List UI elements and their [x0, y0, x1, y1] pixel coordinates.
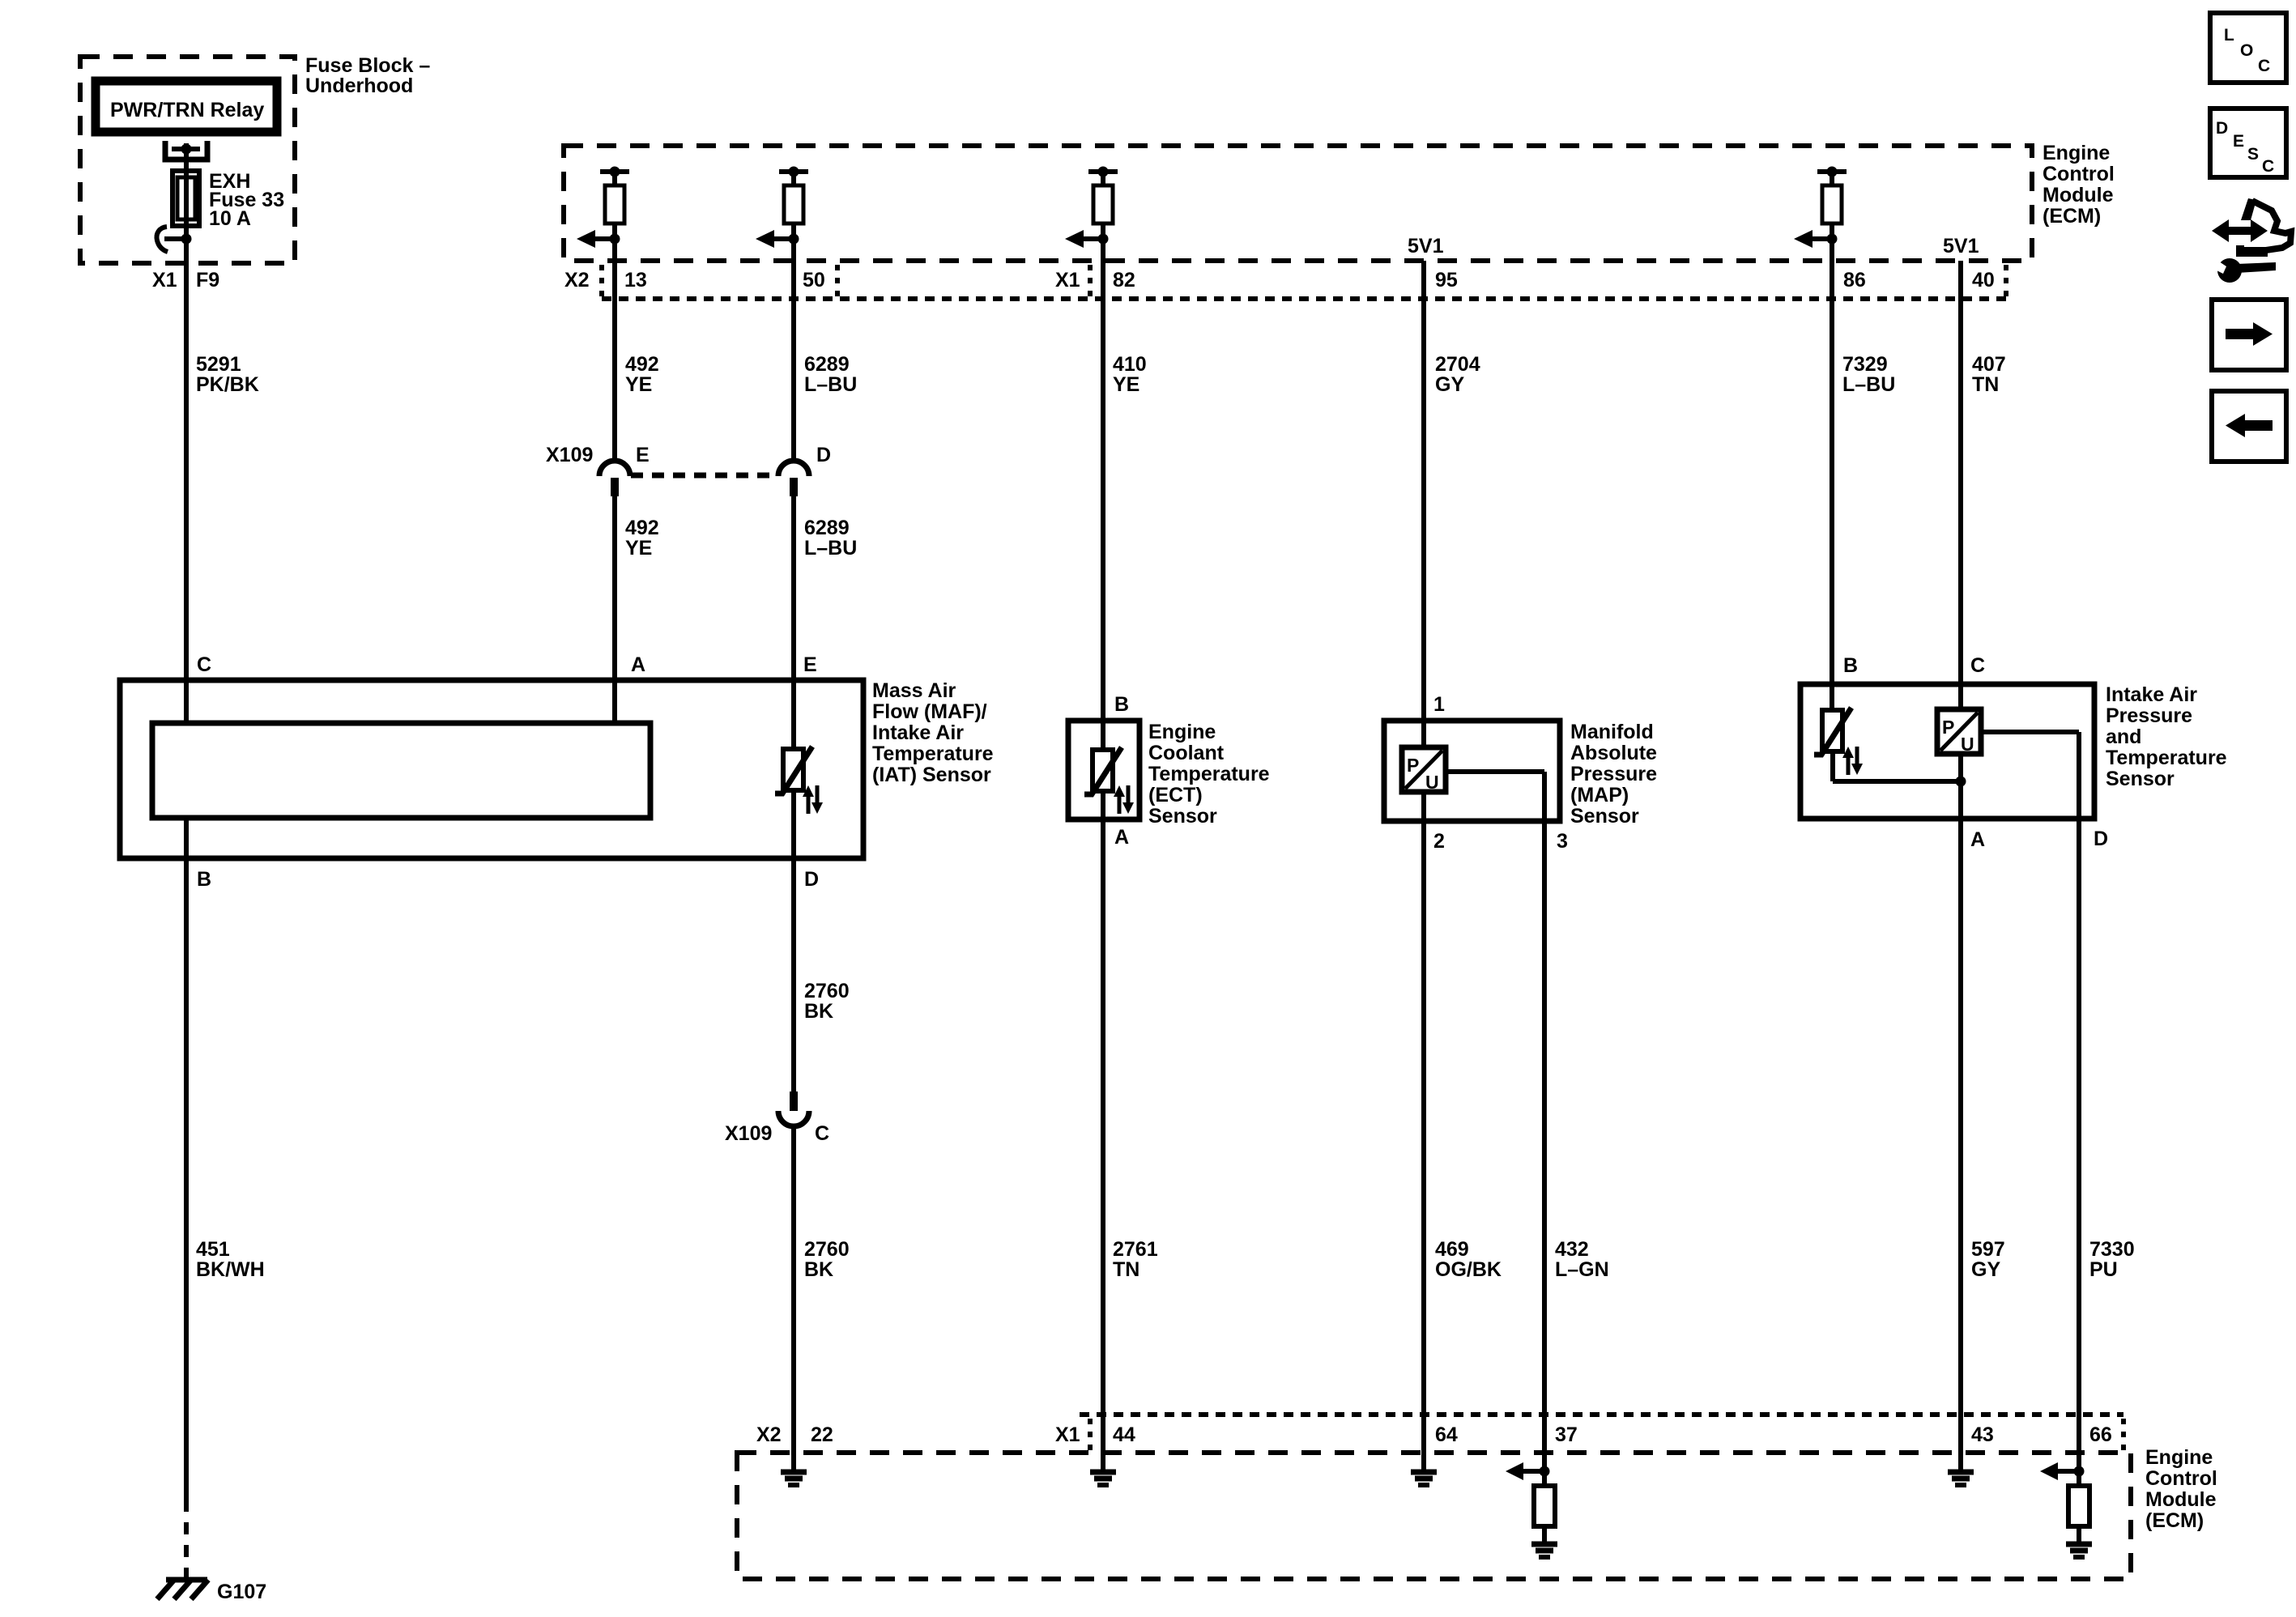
svg-text:50: 50	[803, 269, 825, 291]
ECM internal resistor	[1822, 185, 1842, 223]
temp variation arrows ECT	[1114, 785, 1134, 814]
MAF pin B	[197, 868, 211, 891]
IAT/P pin C	[1970, 654, 1985, 677]
P/U pressure transducer MAP	[1402, 747, 1446, 793]
svg-text:37: 37	[1555, 1423, 1578, 1446]
svg-text:D: D	[2216, 119, 2228, 138]
label 492 YE upper segment	[625, 353, 659, 396]
svg-text:13: 13	[624, 269, 647, 291]
pin 37	[1555, 1423, 1578, 1446]
fuse hook element	[157, 227, 192, 252]
label pin C lower	[815, 1122, 829, 1145]
MAP pin 3	[1557, 830, 1568, 853]
ground ECM pin 22	[781, 1472, 807, 1485]
svg-text:(ECT): (ECT)	[1148, 784, 1203, 806]
svg-text:X1: X1	[152, 269, 177, 291]
pin 66	[2089, 1423, 2112, 1446]
svg-text:2704: 2704	[1435, 353, 1480, 376]
pin label X2	[564, 269, 590, 291]
svg-text:Engine: Engine	[2145, 1446, 2213, 1469]
Engine Control Module (ECM) bottom dashed box	[737, 1453, 2131, 1579]
label 6289 L-BU lower segment	[804, 517, 857, 560]
svg-text:A: A	[1114, 826, 1129, 849]
svg-text:and: and	[2106, 726, 2141, 748]
ECM internal pull-up bar	[779, 167, 808, 186]
label 432 L-GN (MAP 3 to ECM 37)	[1555, 1238, 1609, 1281]
thermistor ECT	[1084, 747, 1122, 794]
MAF pin D	[804, 868, 819, 891]
ECM internal pull-down pin 66	[2040, 1453, 2089, 1542]
label Fuse Block - Underhood	[305, 54, 430, 97]
ECM internal signal arrow	[577, 223, 620, 261]
svg-text:64: 64	[1435, 1423, 1458, 1446]
wire 469 OG/BK (MAP 2 to ECM 64)	[1421, 792, 1426, 1470]
label Engine Control Module (ECM) top	[2043, 142, 2115, 228]
svg-text:X1: X1	[1055, 1423, 1080, 1446]
svg-text:L–GN: L–GN	[1555, 1258, 1609, 1281]
svg-text:6289: 6289	[804, 353, 850, 376]
wire 410 YE (ECM 82 to ECT B)	[1101, 261, 1105, 752]
svg-text:10 A: 10 A	[209, 207, 251, 230]
svg-text:Engine: Engine	[1148, 721, 1216, 743]
icon DESC box	[2210, 109, 2286, 177]
fuse F9: EXH Fuse 33 10A	[173, 171, 199, 226]
svg-text:YE: YE	[1113, 373, 1139, 396]
pin 50	[803, 269, 825, 291]
label Engine Coolant Temperature (ECT) Sensor	[1148, 721, 1270, 828]
svg-text:GY: GY	[1435, 373, 1464, 396]
icon back arrow box	[2212, 391, 2286, 462]
svg-text:469: 469	[1435, 1238, 1469, 1261]
svg-text:O: O	[2240, 41, 2253, 60]
IAT/P pin A	[1970, 828, 1985, 851]
pin 40	[1972, 269, 1995, 291]
temp variation arrows IAT/P	[1842, 747, 1863, 775]
ECT sensor box	[1068, 721, 1139, 819]
MAP pin 2	[1433, 830, 1445, 853]
icon LOC box	[2210, 13, 2286, 83]
label 492 YE lower segment	[625, 517, 659, 560]
thermistor IAT	[775, 747, 812, 794]
svg-text:Sensor: Sensor	[1148, 805, 1217, 828]
svg-text:2: 2	[1433, 830, 1445, 853]
pin 82	[1113, 269, 1135, 291]
P/U pressure transducer IAT/P	[1937, 709, 1981, 755]
svg-text:D: D	[2094, 828, 2108, 850]
svg-text:407: 407	[1972, 353, 2006, 376]
svg-text:L–BU: L–BU	[1842, 373, 1895, 396]
label Intake Air Pressure and Temperature Sensor	[2106, 683, 2227, 790]
label 410 YE (ECM 82 to ECT B)	[1113, 353, 1147, 396]
svg-text:U: U	[1961, 734, 1974, 755]
svg-text:1: 1	[1433, 693, 1445, 716]
pin 44	[1113, 1423, 1135, 1446]
svg-text:P: P	[1942, 717, 1954, 738]
svg-text:PK/BK: PK/BK	[196, 373, 259, 396]
label 2761 TN (ECT A to ECM 44)	[1113, 1238, 1158, 1281]
label X109 upper	[546, 444, 593, 466]
label 407 TN (ECM 40 to IAT/P C)	[1972, 353, 2006, 396]
label 2760 BK (MAF D to X109 C)	[804, 980, 850, 1023]
svg-text:D: D	[816, 444, 831, 466]
IAT/P internal wire to pin D	[1981, 730, 2079, 734]
svg-text:Control: Control	[2145, 1467, 2217, 1490]
ECT pin B	[1114, 693, 1129, 716]
wire from relay through fuse	[184, 143, 189, 723]
svg-text:A: A	[1970, 828, 1985, 851]
MAF hot-film element box	[152, 723, 650, 818]
svg-text:X2: X2	[564, 269, 590, 291]
svg-text:C: C	[1970, 654, 1985, 677]
connector X109 pin D	[778, 461, 809, 496]
X109 jumper dashed link E-D	[631, 473, 778, 479]
MAP internal wire to pin 3	[1446, 769, 1544, 774]
svg-text:Pressure: Pressure	[1570, 763, 1657, 785]
svg-text:Manifold: Manifold	[1570, 721, 1654, 743]
svg-text:2760: 2760	[804, 1238, 850, 1261]
pin 22	[811, 1423, 833, 1446]
label 6289 L-BU upper segment	[804, 353, 857, 396]
pin label X1	[1055, 269, 1080, 291]
svg-text:Temperature: Temperature	[1148, 763, 1270, 785]
top ECM connector dotted strip	[602, 265, 2006, 299]
ground pin 37 ground	[1531, 1544, 1557, 1557]
svg-text:C: C	[2262, 157, 2274, 176]
MAP pin 1	[1433, 693, 1445, 716]
svg-text:44: 44	[1113, 1423, 1135, 1446]
svg-text:Absolute: Absolute	[1570, 742, 1657, 764]
connector label X1 F9	[152, 269, 219, 291]
svg-text:Sensor: Sensor	[2106, 768, 2175, 790]
wire 451 BK/WH (MAF B to G107)	[184, 818, 189, 1577]
ECM internal resistor	[1093, 185, 1113, 223]
svg-text:451: 451	[196, 1238, 230, 1261]
ground ECM pin 64	[1411, 1472, 1437, 1485]
svg-text:3: 3	[1557, 830, 1568, 853]
pin label X1 bottom	[1055, 1423, 1080, 1446]
wire 7329 L-BU (ECM 86 to IAT/P B)	[1830, 261, 1834, 713]
svg-text:Coolant: Coolant	[1148, 742, 1225, 764]
svg-text:E: E	[803, 653, 817, 676]
svg-text:Control: Control	[2043, 163, 2115, 185]
svg-text:5291: 5291	[196, 353, 241, 376]
wire 2704 GY (ECM 95 to MAP 1)	[1421, 261, 1426, 750]
svg-text:P: P	[1407, 755, 1419, 776]
ECM internal pull-up bar	[1817, 167, 1847, 186]
svg-text:5V1: 5V1	[1943, 235, 1979, 257]
MAP sensor box	[1384, 721, 1560, 821]
label 2704 GY (ECM 95 to MAP 1)	[1435, 353, 1480, 396]
svg-text:Intake Air: Intake Air	[2106, 683, 2197, 706]
svg-text:(MAP): (MAP)	[1570, 784, 1629, 806]
svg-text:B: B	[197, 868, 211, 891]
label 597 GY (IAT/P A to ECM 43)	[1971, 1238, 2005, 1281]
svg-text:597: 597	[1971, 1238, 2005, 1261]
svg-text:2760: 2760	[804, 980, 850, 1002]
wire 492 YE lower segment	[612, 496, 617, 726]
svg-text:PU: PU	[2089, 1258, 2118, 1281]
svg-text:Underhood: Underhood	[305, 74, 413, 97]
relay K: PWR/TRN Relay box	[96, 81, 277, 132]
svg-text:5V1: 5V1	[1408, 235, 1444, 257]
svg-text:Fuse Block –: Fuse Block –	[305, 54, 430, 77]
svg-text:Module: Module	[2145, 1488, 2217, 1511]
ECM internal pull-down pin 37	[1506, 1453, 1555, 1542]
label Engine Control Module (ECM) bottom	[2145, 1446, 2217, 1532]
svg-text:(IAT) Sensor: (IAT) Sensor	[872, 764, 991, 786]
svg-text:86: 86	[1843, 269, 1866, 291]
svg-text:(ECM): (ECM)	[2043, 205, 2101, 228]
pin 43	[1971, 1423, 1994, 1446]
svg-text:7330: 7330	[2089, 1238, 2135, 1261]
svg-text:L–BU: L–BU	[804, 373, 857, 396]
ECM internal pull-up bar	[600, 167, 629, 186]
svg-text:Engine: Engine	[2043, 142, 2110, 164]
bottom ECM connector dotted strip	[1080, 1415, 2123, 1450]
label Manifold Absolute Pressure (MAP) Sensor	[1570, 721, 1657, 828]
wire 432 L-GN (MAP 3 to ECM 37)	[1542, 772, 1547, 1486]
label pin D	[816, 444, 831, 466]
svg-text:2761: 2761	[1113, 1238, 1158, 1261]
temp variation arrows IAT	[803, 785, 823, 814]
ECM internal signal arrow	[1065, 223, 1109, 261]
svg-text:BK: BK	[804, 1258, 833, 1281]
svg-text:L: L	[2224, 26, 2234, 45]
pin 13	[624, 269, 647, 291]
MAF/IAT sensor box	[120, 680, 863, 858]
IAT/P pin D	[2094, 828, 2108, 850]
svg-text:432: 432	[1555, 1238, 1589, 1261]
svg-text:X109: X109	[546, 444, 593, 466]
ECM internal resistor	[605, 185, 624, 223]
svg-text:Mass Air: Mass Air	[872, 679, 956, 702]
Intake Air Pressure and Temperature sensor box	[1800, 684, 2094, 819]
svg-text:L–BU: L–BU	[804, 537, 857, 560]
svg-text:A: A	[631, 653, 645, 676]
label 469 OG/BK (MAP 2 to ECM 64)	[1435, 1238, 1502, 1281]
icon wrench	[2210, 258, 2276, 283]
svg-text:Temperature: Temperature	[2106, 747, 2227, 769]
pin label X2 bottom	[756, 1423, 782, 1446]
label pin E	[636, 444, 650, 466]
svg-text:492: 492	[625, 517, 659, 539]
wire 6289 L-BU lower segment	[791, 496, 796, 751]
svg-text:C: C	[197, 653, 211, 676]
relay contact terminal (cup with dot)	[165, 141, 207, 160]
ECM internal signal arrow	[756, 223, 799, 261]
fuse label EXH Fuse 33 10 A	[209, 170, 284, 230]
label 2760 BK (X109 C to ECM 22)	[804, 1238, 850, 1281]
svg-text:22: 22	[811, 1423, 833, 1446]
svg-text:Module: Module	[2043, 184, 2114, 206]
svg-text:TN: TN	[1113, 1258, 1139, 1281]
wire 407 TN (ECM 40 to IAT/P C)	[1958, 261, 1963, 712]
svg-text:43: 43	[1971, 1423, 1994, 1446]
svg-text:PWR/TRN Relay: PWR/TRN Relay	[110, 99, 264, 121]
connector X109 pin C	[778, 1091, 809, 1126]
svg-text:TN: TN	[1972, 373, 1999, 396]
ground pin 66 ground	[2066, 1544, 2092, 1557]
wire 7330 PU (IAT/P D to ECM 66)	[2077, 732, 2081, 1486]
svg-text:82: 82	[1113, 269, 1135, 291]
ECM internal signal arrow	[1794, 223, 1838, 261]
svg-text:C: C	[2258, 57, 2270, 75]
svg-text:E: E	[2233, 132, 2244, 151]
pin 86	[1843, 269, 1866, 291]
wire 2760 BK (MAF D to X109 C)	[791, 790, 796, 1091]
svg-text:(ECM): (ECM)	[2145, 1509, 2204, 1532]
ECM internal pull-up bar	[1088, 167, 1118, 186]
svg-text:OG/BK: OG/BK	[1435, 1258, 1502, 1281]
chassis ground G107	[157, 1580, 208, 1599]
svg-text:Intake Air: Intake Air	[872, 721, 964, 744]
svg-text:G107: G107	[217, 1581, 266, 1603]
ground ECM pin 43	[1948, 1472, 1974, 1485]
net 5V1 label right	[1943, 235, 1979, 257]
svg-text:E: E	[636, 444, 650, 466]
ground ECM pin 44	[1090, 1472, 1116, 1485]
wire 492 YE upper segment	[612, 261, 617, 463]
MAF pin C	[197, 653, 211, 676]
thermistor IAT/P	[1814, 708, 1851, 755]
svg-text:YE: YE	[625, 537, 652, 560]
svg-text:YE: YE	[625, 373, 652, 396]
wire 597 GY (IAT/P A to ECM 43)	[1958, 754, 1963, 1470]
svg-text:410: 410	[1113, 353, 1147, 376]
icon forward arrow box	[2212, 300, 2286, 370]
wire 2760 BK (X109 C to ECM 22)	[791, 1126, 796, 1470]
svg-text:Temperature: Temperature	[872, 743, 994, 765]
MAF pin A	[631, 653, 645, 676]
connector X109 pin E	[599, 461, 630, 496]
svg-text:X1: X1	[1055, 269, 1080, 291]
wire 2761 TN (ECT A to ECM 44)	[1101, 790, 1105, 1470]
label G107	[217, 1581, 266, 1603]
label 451 BK/WH (MAF B to G107)	[196, 1238, 265, 1281]
svg-text:B: B	[1114, 693, 1129, 716]
svg-text:GY: GY	[1971, 1258, 2000, 1281]
svg-text:6289: 6289	[804, 517, 850, 539]
svg-text:F9: F9	[196, 269, 219, 291]
wire 5291 PK/BK (fuse to MAF C) label	[196, 353, 259, 396]
net 5V1 label left	[1408, 235, 1444, 257]
ECM internal resistor	[784, 185, 803, 223]
svg-text:Flow (MAF)/: Flow (MAF)/	[872, 700, 987, 723]
label 7329 L-BU (ECM 86 to IAT/P B)	[1842, 353, 1895, 396]
icon diagnostic hand with double arrow	[2212, 198, 2291, 257]
svg-text:Pressure: Pressure	[2106, 704, 2192, 727]
svg-text:B: B	[1843, 654, 1858, 677]
wire 6289 L-BU upper segment	[791, 261, 796, 463]
label X109 lower	[725, 1122, 772, 1145]
MAF pin E	[803, 653, 817, 676]
svg-text:C: C	[815, 1122, 829, 1145]
pin 95	[1435, 269, 1458, 291]
IAT/P thermistor branch wire	[1833, 749, 1966, 787]
ECT pin A	[1114, 826, 1129, 849]
svg-text:7329: 7329	[1842, 353, 1888, 376]
svg-text:492: 492	[625, 353, 659, 376]
svg-text:X2: X2	[756, 1423, 782, 1446]
svg-text:D: D	[804, 868, 819, 891]
svg-text:BK: BK	[804, 1000, 833, 1023]
svg-text:X109: X109	[725, 1122, 772, 1145]
svg-text:95: 95	[1435, 269, 1458, 291]
svg-text:BK/WH: BK/WH	[196, 1258, 265, 1281]
svg-text:66: 66	[2089, 1423, 2112, 1446]
Engine Control Module (ECM) top dashed box	[564, 146, 2032, 261]
svg-text:40: 40	[1972, 269, 1995, 291]
svg-text:Sensor: Sensor	[1570, 805, 1639, 828]
fuse block - underhood dashed box	[80, 57, 295, 263]
label 7330 PU (IAT/P D to ECM 66)	[2089, 1238, 2135, 1281]
IAT/P pin B	[1843, 654, 1858, 677]
svg-text:S: S	[2247, 145, 2259, 164]
svg-text:U: U	[1425, 772, 1439, 793]
label Mass Air Flow (MAF)/ Intake Air Temperature (IAT) Sensor	[872, 679, 994, 786]
pin 64	[1435, 1423, 1458, 1446]
